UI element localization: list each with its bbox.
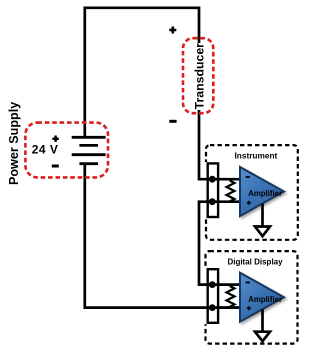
svg-text:Amplifier: Amplifier — [248, 189, 282, 198]
svg-text:Digital Display: Digital Display — [227, 257, 283, 266]
svg-text:24 V: 24 V — [32, 143, 59, 157]
svg-text:Amplifier: Amplifier — [248, 295, 282, 304]
svg-text:Instrument: Instrument — [234, 150, 277, 160]
svg-text:Power Supply: Power Supply — [7, 102, 21, 185]
svg-text:Transducer: Transducer — [192, 43, 206, 110]
